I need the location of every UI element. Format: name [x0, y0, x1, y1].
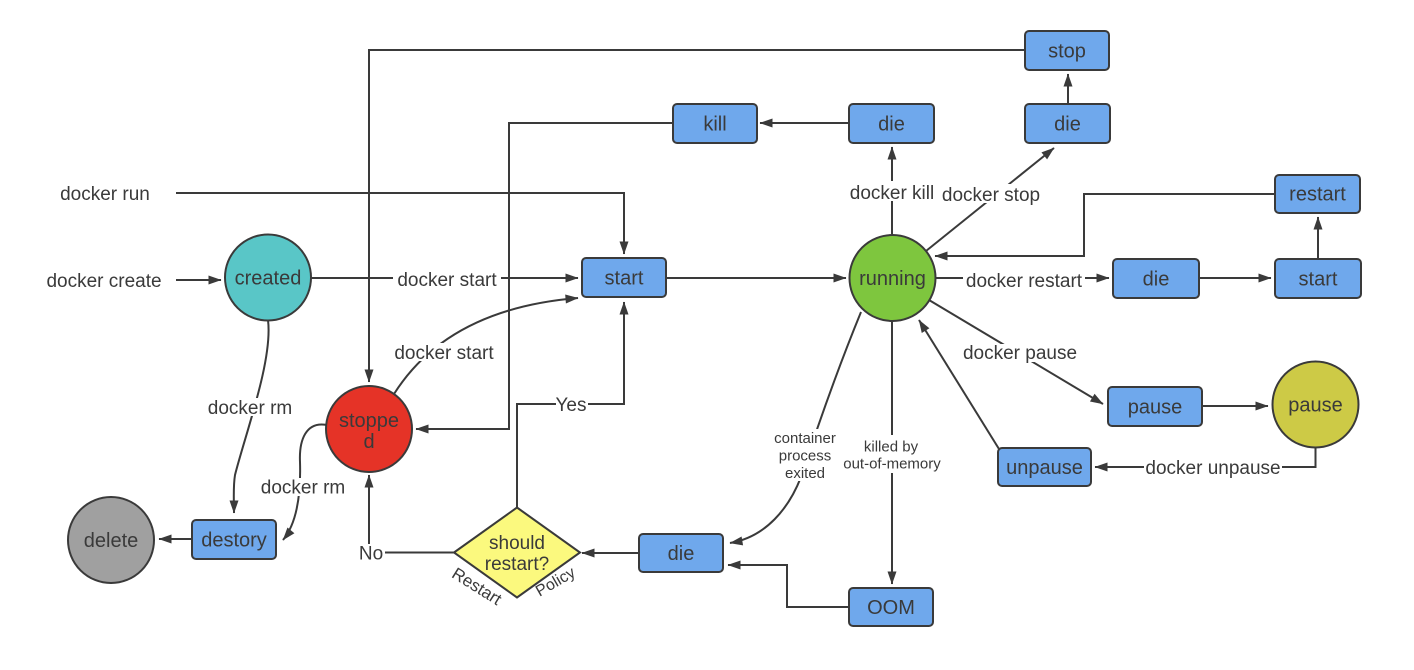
- label docker rm lower: [259, 478, 347, 499]
- wire destory to delete: [159, 538, 192, 540]
- wire pause box to pause circle: [1202, 405, 1268, 407]
- box start middle: [582, 258, 666, 297]
- svg-text:docker pause: docker pause: [963, 343, 1077, 364]
- node delete: [68, 497, 154, 583]
- node created: [225, 235, 311, 321]
- label Policy rotated: [533, 564, 578, 600]
- svg-text:should: should: [489, 533, 545, 554]
- svg-text:die: die: [668, 543, 695, 565]
- svg-text:out-of-memory: out-of-memory: [843, 456, 941, 473]
- svg-text:unpause: unpause: [1006, 457, 1083, 479]
- wire docker run line to start top: [176, 193, 624, 254]
- svg-text:exited: exited: [785, 465, 825, 482]
- wire stopped curve to destory: [283, 424, 327, 540]
- box pause: [1108, 387, 1202, 426]
- box OOM: [849, 588, 933, 626]
- svg-text:die: die: [878, 114, 905, 136]
- svg-text:docker restart: docker restart: [966, 271, 1083, 292]
- wire created to start: [311, 277, 578, 279]
- svg-text:docker rm: docker rm: [208, 398, 292, 419]
- svg-text:die: die: [1054, 114, 1081, 136]
- svg-text:docker create: docker create: [46, 271, 161, 292]
- label docker stop: [940, 184, 1040, 206]
- wire running diagonal to pause box: [929, 300, 1103, 404]
- svg-text:restart?: restart?: [485, 554, 549, 575]
- wire running up to die left: [891, 147, 893, 234]
- wire OOM to die bottom: [728, 565, 849, 607]
- svg-text:Yes: Yes: [556, 395, 587, 416]
- label docker start curve: [390, 343, 498, 364]
- svg-text:start: start: [1299, 269, 1338, 291]
- wire stopped curve to start: [394, 298, 578, 394]
- wire running diagonal to die right: [926, 148, 1054, 251]
- label docker restart: [963, 270, 1085, 292]
- box destory: [192, 520, 276, 559]
- wire start right up to restart: [1317, 217, 1319, 259]
- svg-text:docker unpause: docker unpause: [1145, 458, 1280, 479]
- svg-text:created: created: [235, 268, 302, 290]
- svg-text:docker stop: docker stop: [942, 185, 1040, 206]
- wire die left to kill: [760, 122, 849, 124]
- node running: [850, 235, 936, 321]
- svg-text:running: running: [859, 268, 926, 290]
- wire unpause to running: [919, 320, 999, 449]
- svg-text:d: d: [363, 431, 374, 453]
- svg-text:stop: stop: [1048, 41, 1086, 63]
- box die upper-left: [849, 104, 934, 143]
- wire kill to stopped right: [416, 123, 673, 429]
- svg-text:restart: restart: [1289, 184, 1346, 206]
- node diamond should restart: [454, 508, 580, 598]
- label docker rm upper: [207, 398, 293, 419]
- label docker pause: [963, 343, 1077, 364]
- label Restart rotated: [448, 564, 505, 609]
- svg-text:start: start: [605, 268, 644, 290]
- label Yes: [556, 395, 589, 416]
- wire stop to stopped top: [369, 50, 1025, 382]
- svg-text:docker kill: docker kill: [850, 183, 934, 204]
- box unpause: [998, 448, 1091, 486]
- label docker run: [60, 184, 150, 205]
- wire die right-mid to start right: [1199, 277, 1271, 279]
- wire running curve to die bottom: [730, 312, 861, 543]
- label No: [357, 544, 385, 565]
- label container process exited: [769, 429, 839, 482]
- node stopped: [326, 386, 412, 472]
- svg-text:killed by: killed by: [864, 439, 919, 456]
- svg-text:docker start: docker start: [394, 343, 494, 364]
- svg-text:pause: pause: [1128, 397, 1183, 419]
- svg-text:die: die: [1143, 269, 1170, 291]
- box stop: [1025, 31, 1109, 70]
- svg-text:OOM: OOM: [867, 597, 915, 619]
- svg-text:kill: kill: [703, 114, 726, 136]
- svg-text:stoppe: stoppe: [339, 410, 399, 432]
- wire pause circle to unpause: [1095, 448, 1316, 468]
- wire diamond No to stopped bottom: [369, 475, 454, 553]
- svg-text:No: No: [359, 544, 383, 565]
- wire diamond Yes to start bottom: [517, 302, 624, 507]
- wire created curve to destory: [234, 320, 269, 513]
- label docker kill: [846, 181, 938, 204]
- wire running to die right-mid: [936, 277, 1109, 279]
- label killed by out-of-memory: [838, 435, 946, 473]
- label docker unpause: [1144, 458, 1282, 479]
- svg-text:docker start: docker start: [397, 270, 497, 291]
- label docker create: [46, 271, 161, 292]
- wire start to running: [666, 277, 846, 279]
- svg-text:pause: pause: [1288, 395, 1343, 417]
- box die right: [1113, 259, 1199, 298]
- svg-text:docker rm: docker rm: [261, 478, 345, 499]
- wire docker create arrow: [176, 279, 221, 281]
- node pause circle: [1273, 362, 1359, 448]
- svg-text:docker run: docker run: [60, 184, 150, 205]
- box restart: [1275, 175, 1360, 213]
- wire running down to OOM: [891, 321, 893, 584]
- box die bottom: [639, 534, 723, 572]
- box kill: [673, 104, 757, 143]
- wire die right up to stop: [1067, 74, 1069, 104]
- label docker start mid: [393, 269, 501, 291]
- svg-text:container: container: [774, 430, 836, 447]
- wire die bottom to diamond: [582, 552, 639, 554]
- svg-text:delete: delete: [84, 530, 139, 552]
- svg-text:destory: destory: [201, 530, 267, 552]
- box start right: [1275, 259, 1361, 298]
- svg-text:process: process: [779, 448, 832, 465]
- wire restart to running: [935, 194, 1275, 256]
- box die upper-right: [1025, 104, 1110, 143]
